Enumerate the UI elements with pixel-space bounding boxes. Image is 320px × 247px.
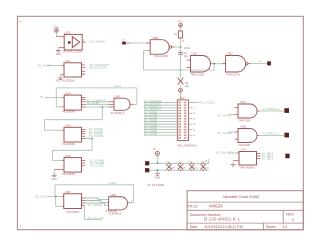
svg-text:XC_CLK_IN: XC_CLK_IN (35, 195, 50, 199)
svg-text:74HC00D: 74HC00D (238, 143, 250, 147)
connector JP2 pad row 14 (178, 137, 181, 139)
wire label to U5 pin1 (49, 196, 62, 198)
svg-text:CLK_4MHZ: CLK_4MHZ (89, 39, 105, 43)
pin U5 q2 wire to G2 (85, 201, 108, 203)
capacitor C2 cross symbol (178, 164, 183, 170)
wire CLK5 left drop (54, 185, 56, 197)
pin U5 in2 (62, 205, 64, 207)
svg-text:1/1: 1/1 (283, 225, 288, 229)
pin U6A in2 (235, 114, 239, 116)
connector JP2 pad row 8 (178, 121, 181, 123)
wire XC_CLK_OUT horizontal (84, 219, 102, 221)
svg-text:CLKA: CLKA (184, 47, 191, 50)
pin wire QG1 VDD (56, 36, 64, 38)
port square P1 (267, 61, 271, 65)
pin U3 q3 (82, 133, 86, 135)
svg-text:U2A: U2A (65, 92, 71, 96)
wire link U3 to U4 seg2 (53, 149, 92, 151)
wire feedback horizontal (144, 69, 215, 71)
stub JP2 right pin 9 (189, 123, 193, 125)
svg-text:GND: GND (155, 176, 161, 179)
svg-text:74HC132D: 74HC132D (154, 54, 168, 58)
junction C3 top (191, 163, 193, 165)
title block outline (187, 191, 303, 230)
pin U2 clk (62, 106, 64, 108)
pin U1 out1 (82, 64, 86, 66)
svg-text:U1A: U1A (65, 59, 71, 63)
AND gate G4A (74HC132) (191, 56, 211, 73)
junction C2 top (180, 163, 182, 165)
wire node down to C5 (180, 47, 182, 52)
svg-text:GND: GND (52, 178, 58, 181)
wire label to U7 in (227, 152, 237, 154)
svg-text:U5B: U5B (152, 36, 158, 40)
svg-text:XC 74LS393N: XC 74LS393N (147, 183, 164, 187)
svg-text:74HC132D: 74HC132D (190, 73, 204, 77)
ground symbol below U1 (58, 77, 63, 79)
svg-text:74HC00D: 74HC00D (238, 118, 250, 122)
stub JP2 right pin 7 (189, 118, 193, 120)
pin G1 output (130, 103, 134, 105)
pin G4A in1 (187, 59, 191, 61)
svg-text:QG1: QG1 (64, 31, 71, 35)
wire QG1 to ground (57, 48, 59, 51)
wire JP2 pin 9 left (144, 123, 178, 125)
AND gate U6A (238, 104, 257, 118)
pin U5 q4 wire down (82, 205, 85, 207)
pin G4B in (222, 63, 225, 65)
wire feedback to G3 in2 (144, 50, 151, 52)
svg-text:XC_CLK3D: XC_CLK3D (89, 134, 103, 138)
wire link U3 to U4 seg1 (91, 139, 93, 151)
junction VCC rail (157, 162, 159, 164)
junction C4 bottom (202, 169, 204, 171)
wire U5 q4 drop (83, 206, 85, 220)
svg-text:11/10/2023 11:56:11 PM: 11/10/2023 11:56:11 PM (204, 225, 243, 229)
pin U4 q2 (82, 162, 86, 164)
pin U3 q2 (82, 131, 86, 133)
IC U7 body (239, 152, 257, 166)
stub JP2 right pin 13 (189, 134, 193, 136)
wire C5 to feedback (180, 54, 182, 70)
wire link U2 to U3 seg1 (101, 107, 103, 120)
wire GND rail (149, 169, 209, 171)
svg-text:XC_CLK2: XC_CLK2 (87, 101, 100, 105)
pin G4A in2 (187, 67, 191, 69)
svg-text:22p: 22p (185, 85, 190, 88)
svg-text:VCC: VCC (178, 21, 183, 24)
stub JP2 right pin 5 (189, 112, 193, 114)
pin G3 in2 (147, 50, 151, 52)
wire link U3 to U4 seg3 (52, 150, 54, 160)
svg-text:XC_CLK5C: XC_CLK5C (87, 203, 101, 207)
pin U4 q3 (82, 165, 86, 167)
pin wire QG1 GND (58, 47, 64, 49)
pin U6B in2 (235, 138, 239, 140)
pin U7 gnd (233, 160, 239, 162)
VCC symbol for rails (155, 152, 159, 156)
junction C4 top (202, 163, 204, 165)
junction G3 output node (180, 46, 182, 48)
pin U7 in1 (237, 152, 239, 154)
wire JP2 VCC right (189, 102, 200, 104)
wire G2 output to CLK5 riser (131, 202, 134, 204)
pin U2 q5 wire to G1 (85, 106, 108, 108)
wire feedback riser right (213, 63, 215, 70)
wire label to U6B in (229, 131, 235, 133)
AND gate G2 (74HC11) (109, 197, 128, 210)
pin U1 gnd (61, 74, 65, 76)
connector JP2 pad row 2 (178, 104, 181, 106)
svg-text:U4A: U4A (65, 154, 71, 158)
pin G4A output (210, 63, 213, 65)
VCC ring above connector (179, 89, 183, 93)
pin U6B output (257, 135, 260, 137)
svg-text:U5D: U5D (110, 193, 117, 197)
VCC symbol for QG1 (55, 29, 59, 33)
svg-text:XC_CLK4C: XC_CLK4C (90, 164, 104, 168)
svg-text:100n: 100n (182, 167, 186, 169)
ground symbol below U4 (52, 174, 57, 176)
schematic frame (17, 16, 303, 229)
wire VCC to R1 (180, 27, 182, 31)
wire U5 pin tie vertical (55, 197, 57, 207)
wire U6B out to port (260, 135, 285, 137)
svg-text:TITLE:: TITLE: (187, 204, 198, 208)
svg-text:CLK1: CLK1 (114, 84, 121, 88)
stub JP2 right pin 11 (189, 129, 193, 131)
pin U6B in1 (235, 131, 239, 133)
wire C6 to VCC ring (180, 85, 182, 89)
svg-text:VCC: VCC (54, 26, 59, 29)
wire link U2 to U3 seg2 (44, 119, 102, 121)
wire VCC rail (149, 162, 209, 164)
pin U6A in1 (235, 107, 239, 109)
pin U1 out3 (82, 70, 86, 72)
svg-text:XC4KRIy 1: XC4KRIy 1 (110, 111, 125, 115)
VCC symbol top (179, 24, 183, 28)
wire U6A out to port (260, 110, 285, 112)
junction U3 to U4 link (91, 138, 93, 140)
stub JP2 right pin 3 (189, 107, 193, 109)
junction C3 bottom (191, 169, 193, 171)
pin U4 in1 (62, 160, 64, 162)
wire ring to connector pin1 (180, 92, 182, 100)
connector JP2 pad row 11 (178, 129, 181, 131)
wire JP2 pin 12 left (144, 131, 178, 133)
connector JP2 pad row 9 (178, 123, 181, 125)
IC U1 body (64, 63, 82, 77)
wire G4B out to port (251, 62, 267, 64)
pin U4 gnd (54, 168, 64, 170)
wire VCC to QG1 pin (55, 32, 57, 36)
title block row line 1 (187, 201, 303, 203)
wire U1 to ground (60, 75, 62, 78)
pin U7 q1 (257, 152, 261, 154)
junction C1 bottom (168, 169, 170, 171)
svg-text:100n: 100n (193, 167, 197, 169)
capacitor C6 cross symbol (178, 78, 184, 85)
ground symbol below rails (155, 173, 160, 175)
wire G3 output to node (175, 46, 181, 48)
svg-text:XC 74LS390N: XC 74LS390N (56, 78, 74, 82)
junction C2 bottom (180, 169, 182, 171)
svg-text:B-CD-M452-6-1: B-CD-M452-6-1 (204, 217, 240, 222)
svg-text:74HC132D: 74HC132D (226, 73, 240, 77)
connector JP2 pad row 7 (178, 118, 181, 120)
pin U2 in1 (62, 97, 64, 99)
title block REV divider (282, 210, 284, 223)
oscillator buffer triangle (72, 37, 79, 48)
junction C1 top (168, 163, 170, 165)
IC U5 body (64, 194, 82, 209)
resistor R1 (178, 31, 182, 38)
junction U2 q5 to U3 link (101, 106, 103, 108)
svg-text:74LS393N: 74LS393N (61, 142, 75, 146)
capacitor C5 plate2 (178, 53, 182, 55)
pin G1 in1 (109, 101, 114, 103)
pin G1 in3 (109, 106, 114, 108)
wire GND rail to ground (156, 170, 158, 173)
wire G1 output to CLK1 (134, 103, 137, 105)
crystal oscillator QG1 body (64, 34, 82, 50)
title block Sheet divider (262, 223, 264, 230)
pin S1 out (126, 42, 131, 44)
svg-text:XC_GATE1_O: XC_GATE1_O (262, 107, 279, 111)
svg-text:U6B: U6B (240, 125, 246, 129)
port square TP1 (145, 161, 149, 165)
connector JP2 pad row 10 (178, 126, 181, 128)
wire label to U2 pin1 (46, 97, 62, 99)
pin U2 q2 (81, 99, 85, 101)
svg-text:CRYSTAL CLOCK: CRYSTAL CLOCK (63, 51, 83, 54)
capacitor C3 cross symbol (189, 164, 194, 170)
svg-text:74LS393N: 74LS393N (61, 172, 75, 176)
svg-text:JP2: JP2 (180, 96, 185, 100)
wire XC_CLKIN to U1 (47, 65, 62, 67)
svg-text:74HC4066D: 74HC4066D (239, 166, 254, 170)
pin G3 in1 (147, 42, 151, 44)
svg-text:GND: GND (56, 53, 62, 56)
svg-text:A: A (19, 19, 21, 23)
wire CLK5 riser (133, 185, 135, 203)
wire CLK1 horizontal (56, 87, 137, 89)
svg-text:XC_VCC33: XC_VCC33 (200, 100, 215, 104)
svg-text:PIN_HDR2X14: PIN_HDR2X14 (178, 144, 197, 148)
ground symbol below QG1 (56, 49, 61, 51)
wire JP2 pin 1 left (144, 101, 178, 103)
pin U5 q1 wire to G2 (85, 198, 108, 200)
svg-text:A: A (20, 225, 22, 229)
svg-text:CLK5: CLK5 (109, 181, 116, 185)
pin G4B output (248, 62, 251, 64)
pin U1 out2 (82, 67, 86, 69)
port square TP2 (145, 168, 149, 172)
capacitor C1 cross symbol (166, 164, 171, 170)
svg-text:100n: 100n (170, 167, 174, 169)
pin U4 q1 (82, 160, 86, 162)
capacitor C4 cross symbol (201, 164, 206, 170)
pin U2 q3 wire to G1 (85, 101, 108, 103)
wire JP2 pin 4 left (144, 110, 178, 112)
connector JP2 pad row 6 (178, 115, 181, 117)
ground symbol below U7 (231, 164, 236, 166)
wire JP2 pin 11 left (144, 129, 178, 131)
wire JP2 pin 13 left (144, 134, 178, 136)
wire JP2 pin 6 left (144, 115, 178, 117)
wire JP2 pin 2 left (144, 104, 178, 106)
svg-text:100n: 100n (205, 167, 209, 169)
junction G4 feedback (213, 63, 215, 65)
wire feedback to C6 (180, 70, 182, 78)
pin U5 in1 (62, 196, 64, 198)
pin U7 q3 (257, 157, 261, 159)
wire G4A out to G4B in (213, 63, 226, 65)
wire CLK5 horizontal (55, 184, 134, 186)
connector JP2 pad row 3 (178, 107, 181, 109)
svg-text:U5C: U5C (192, 52, 199, 56)
svg-text:U6A: U6A (240, 100, 246, 104)
wire U4 to ground (53, 169, 55, 175)
stub JP2 right pin 1 (189, 101, 193, 103)
wire JP2 pin 7 left (144, 118, 178, 120)
wire rail right riser (208, 159, 210, 164)
pin U6A output (257, 110, 260, 112)
pin U3 q4 (82, 135, 86, 137)
svg-text:XC_SEL2: XC_SEL2 (262, 156, 274, 160)
svg-text:74LS393N: 74LS393N (61, 110, 75, 114)
port square U7 out (285, 154, 289, 159)
pin G3 output (172, 46, 175, 48)
svg-text:XC_CLK_EN: XC_CLK_EN (90, 66, 107, 70)
pin G1 in2 (109, 103, 114, 105)
svg-text:Date:: Date: (190, 225, 199, 229)
wire link U2 to U3 seg3 (43, 120, 45, 131)
connector JP2 pad row 12 (178, 132, 181, 134)
connector JP2 pad row 1 (178, 102, 181, 104)
junction feedback at oscillator column (180, 69, 182, 71)
IC U4 body (64, 158, 82, 173)
svg-text:3: 3 (292, 218, 294, 222)
wire JP2 pin 10 left (144, 126, 178, 128)
pin U7 q2 (257, 155, 261, 157)
wire U5 pin tie horizontal (56, 205, 62, 207)
wire R1 to node (180, 38, 182, 47)
pin U3 q5 wire (85, 138, 92, 140)
connector JP2 pad row 4 (178, 110, 181, 112)
AND gate G4B (74HC132) (226, 56, 246, 73)
pin QG1 output (82, 41, 86, 43)
svg-text:U5A: U5A (114, 94, 120, 98)
port square U6B out (284, 133, 289, 138)
connector JP2 body (177, 100, 188, 141)
pin U1 out4 (82, 73, 86, 75)
pin U5 q3 wire to G2 (85, 203, 108, 205)
svg-text:U3A: U3A (65, 124, 71, 128)
IC U3 body (64, 127, 82, 142)
oscillator crystal square (68, 41, 71, 44)
pin U1 input (62, 65, 64, 67)
connector JP2 pad row 5 (178, 113, 181, 115)
wire JP2 pin 5 left (144, 112, 178, 114)
wire clk vertical to U2 (56, 106, 62, 108)
pin U2 q4 wire to G1 (85, 103, 108, 105)
svg-text:REV:: REV: (286, 213, 294, 217)
svg-text:74LS393N: 74LS393N (66, 210, 79, 214)
junction U5 tie (55, 196, 57, 198)
wire label to U6A in (229, 114, 235, 116)
wire JP2 pin 8 left (144, 120, 178, 122)
AND gate G1 (74HC11) (114, 98, 130, 110)
svg-text:Variable Clock M452: Variable Clock M452 (223, 194, 260, 199)
wire VCC symbol to rail (156, 156, 158, 164)
pin U2 q1 (81, 97, 85, 99)
pin U3 in1 (62, 129, 64, 131)
wire JP2 pin 3 left (144, 107, 178, 109)
connector JP2 pad row 13 (178, 134, 181, 136)
wire U7 to ground (232, 161, 234, 165)
svg-text:U5D: U5D (227, 52, 234, 56)
wire S1 to G3 input (130, 42, 150, 44)
port square U6A out (284, 108, 289, 113)
svg-text:M452X: M452X (209, 203, 223, 208)
wire link U3 to U4 seg4 (53, 160, 62, 162)
wire feedback riser left (143, 51, 145, 70)
AND gate U6B (238, 129, 257, 143)
svg-text:XC_CLK_OUT: XC_CLK_OUT (88, 216, 105, 220)
pin G2 output (128, 202, 131, 204)
wire CLK1 right drop to G1 output (136, 88, 138, 104)
svg-text:XC_CLK5B: XC_CLK5B (144, 132, 158, 136)
wire link U2 to U3 seg4 (44, 129, 62, 131)
title block row line 2 (187, 209, 303, 211)
pin U3 q1 (82, 128, 86, 130)
svg-text:U7A: U7A (240, 148, 246, 152)
svg-text:XC4KRIy 6: XC4KRIy 6 (108, 212, 121, 216)
svg-text:22p: 22p (184, 55, 189, 58)
port square S1 (122, 42, 126, 45)
wire CLK1 vertical drop (55, 88, 57, 107)
capacitor C5 plate1 (178, 51, 182, 53)
NAND gate G3 (74HC132) (150, 40, 169, 55)
svg-text:Sheet:: Sheet: (266, 225, 276, 229)
IC U2 body (64, 95, 81, 110)
svg-text:XC_GATE2_O: XC_GATE2_O (262, 132, 279, 136)
junction GND rail (157, 169, 159, 171)
title block row line 3 (187, 222, 303, 224)
svg-text:U4B: U4B (65, 190, 71, 194)
